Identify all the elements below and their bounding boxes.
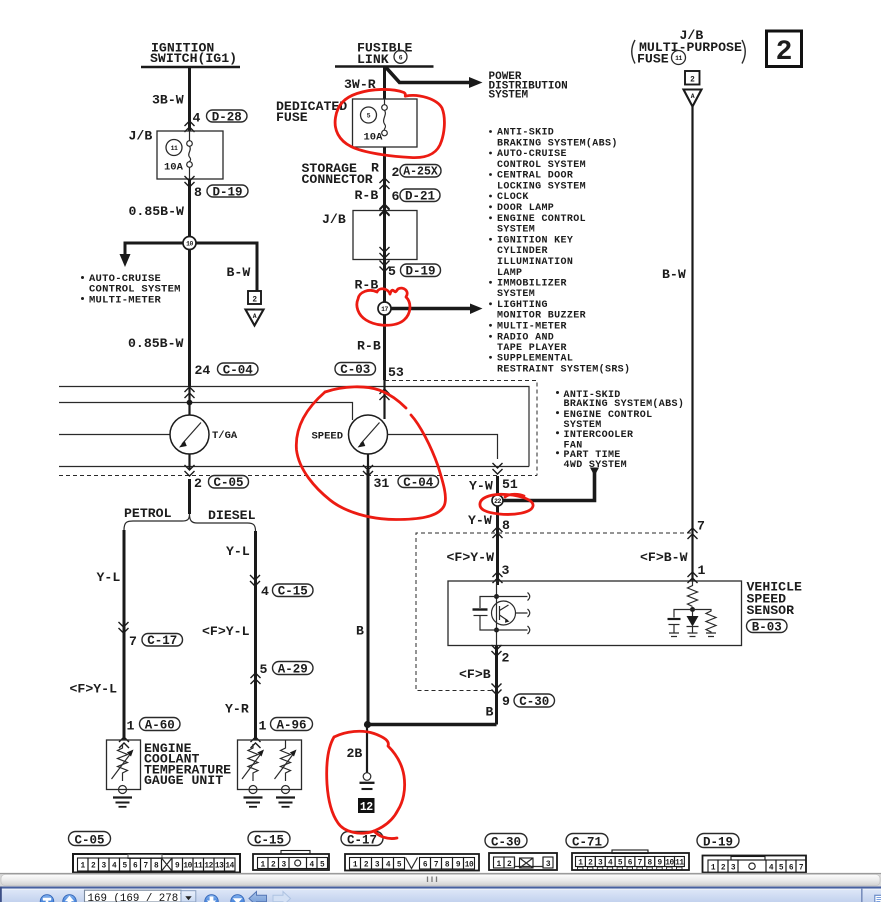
horizontal scrollbar track (0, 873, 881, 887)
svg-text:11: 11 (675, 860, 684, 868)
svg-text:10A: 10A (364, 132, 384, 144)
fuse number circle 5 (361, 107, 377, 123)
arrowhead to auto-cruise list (120, 254, 131, 267)
toolbar button last page (231, 895, 245, 902)
svg-text:C-71: C-71 (572, 836, 602, 850)
svg-text:8: 8 (194, 185, 202, 200)
transistor circle in sensor (492, 601, 516, 625)
node 22 (492, 495, 503, 506)
svg-text:LOCKING SYSTEM: LOCKING SYSTEM (497, 182, 586, 193)
svg-text:10: 10 (186, 241, 193, 248)
svg-text:Y-W: Y-W (469, 479, 493, 494)
svg-text:0.85B-W: 0.85B-W (128, 336, 183, 351)
zener diode (sensor right) (692, 612, 694, 616)
red annotation circle around ground 12 (327, 731, 405, 833)
arrow to power distribution system (386, 68, 470, 83)
svg-text:SUPPLEMENTAL: SUPPLEMENTAL (497, 354, 573, 365)
svg-text:3: 3 (598, 860, 603, 868)
svg-text:C-15: C-15 (278, 585, 308, 599)
branch to 4WD systems arrow (503, 471, 595, 501)
svg-text:3: 3 (546, 861, 551, 869)
big parentheses (632, 40, 635, 64)
triangle ref A (left) (246, 310, 264, 326)
chevrons into meter (185, 387, 195, 398)
svg-text:4: 4 (310, 862, 315, 870)
wire R (383, 147, 386, 205)
connector C-30 label (485, 834, 527, 848)
svg-text:8: 8 (502, 518, 510, 533)
svg-text:A-96: A-96 (276, 719, 306, 733)
wire R-B low (383, 315, 386, 380)
svg-text:<F>Y-W: <F>Y-W (447, 550, 495, 565)
svg-text:2: 2 (364, 862, 369, 870)
sender ground (diesel 1) (249, 786, 257, 794)
svg-text:FUSE: FUSE (637, 52, 669, 67)
svg-text:PETROL: PETROL (124, 506, 172, 521)
status panel icon (875, 895, 881, 902)
page number box 2 (top right) (767, 31, 802, 67)
svg-text:4: 4 (261, 584, 269, 599)
svg-text:5: 5 (779, 865, 784, 873)
svg-text:B: B (486, 705, 494, 720)
svg-text:7: 7 (638, 860, 643, 868)
svg-text:2: 2 (776, 37, 793, 68)
resistor in sensor (right) (688, 581, 698, 607)
junction dot B (364, 721, 371, 728)
svg-text:SENSOR: SENSOR (747, 603, 795, 618)
svg-text:5: 5 (123, 863, 128, 871)
svg-text:J/B: J/B (322, 212, 346, 227)
svg-text:C-17: C-17 (147, 634, 177, 648)
scrollbar grip (428, 877, 437, 883)
svg-text:5: 5 (367, 113, 371, 120)
red annotation circle around node 22 (505, 494, 524, 497)
fusible link bus (335, 65, 434, 68)
svg-text:2: 2 (392, 165, 400, 180)
svg-text:TAPE PLAYER: TAPE PLAYER (497, 343, 567, 354)
svg-text:4: 4 (386, 862, 391, 870)
svg-text:BRAKING SYSTEM(ABS): BRAKING SYSTEM(ABS) (564, 398, 685, 410)
connector C-30 pin layout (489, 853, 557, 870)
svg-text:Y-L: Y-L (97, 570, 121, 585)
svg-text:1: 1 (127, 719, 135, 734)
svg-text:D-19: D-19 (212, 186, 242, 200)
svg-text:IMMOBILIZER: IMMOBILIZER (497, 279, 567, 290)
svg-text:DOOR LAMP: DOOR LAMP (497, 203, 554, 214)
svg-text:10A: 10A (164, 162, 184, 174)
svg-text:6: 6 (423, 862, 428, 870)
svg-text:J/B: J/B (129, 129, 153, 144)
svg-text:D-19: D-19 (405, 265, 435, 279)
page number field (85, 890, 182, 902)
svg-text:7: 7 (697, 519, 705, 534)
wire 0.85B-W upper (188, 179, 191, 386)
svg-text:5: 5 (320, 862, 325, 870)
svg-text:11: 11 (171, 145, 178, 152)
svg-text:12: 12 (360, 801, 373, 814)
node 17 (378, 302, 391, 315)
wire 3W-R (383, 67, 386, 100)
toolbar button first page (40, 895, 54, 902)
wire B from speedometer (367, 470, 370, 725)
svg-text:IGNITION KEY: IGNITION KEY (497, 236, 573, 247)
svg-text:1: 1 (259, 719, 267, 734)
wire (F)B (495, 646, 498, 725)
variable resistor (petrol sender) (118, 744, 128, 781)
connector C-15 pin layout (253, 851, 329, 871)
svg-text:B-W: B-W (662, 267, 686, 282)
svg-text:MULTI-METER: MULTI-METER (497, 322, 567, 333)
combination meter inner bus line (59, 403, 353, 421)
svg-text:7: 7 (144, 863, 149, 871)
svg-text:C-05: C-05 (213, 476, 243, 490)
svg-text:INTERCOOLER: INTERCOOLER (564, 430, 634, 441)
SPEED output wire down (367, 454, 369, 470)
wire through J/B 2 (383, 205, 386, 302)
svg-text:1: 1 (578, 860, 583, 868)
svg-text:24: 24 (195, 363, 211, 378)
svg-text:C-30: C-30 (519, 695, 549, 709)
svg-text:Y-W: Y-W (468, 513, 492, 528)
svg-text:FUSE: FUSE (276, 110, 308, 125)
gauge SPEED (349, 415, 388, 454)
svg-text:R-B: R-B (357, 339, 381, 354)
svg-text:6: 6 (628, 860, 633, 868)
connector C-15 label (248, 832, 290, 846)
wire to fork (188, 479, 191, 514)
svg-text:5: 5 (388, 264, 396, 279)
svg-text:A-25X: A-25X (403, 166, 438, 179)
svg-text:8: 8 (445, 862, 450, 870)
svg-text:ILLUMINATION: ILLUMINATION (497, 257, 573, 268)
svg-text:17: 17 (381, 306, 388, 313)
svg-text:MULTI-METER: MULTI-METER (89, 295, 162, 307)
svg-text:3: 3 (102, 863, 107, 871)
svg-text:11: 11 (194, 863, 203, 871)
svg-text:SPEED: SPEED (312, 431, 344, 443)
svg-text:5: 5 (260, 662, 268, 677)
svg-text:9: 9 (657, 860, 662, 868)
svg-text:<F>Y-L: <F>Y-L (70, 682, 118, 697)
svg-text:3: 3 (731, 865, 736, 873)
connector label D-28 (207, 110, 248, 122)
svg-text:3B-W: 3B-W (152, 93, 184, 108)
toolbar right separator (861, 889, 863, 902)
connector C-71 pin layout (572, 850, 689, 870)
svg-text:6: 6 (392, 189, 400, 204)
svg-text:12: 12 (204, 863, 213, 871)
svg-text:SYSTEM: SYSTEM (497, 289, 535, 300)
svg-text:RADIO AND: RADIO AND (497, 333, 554, 344)
sender ground (diesel 2) (282, 786, 290, 794)
svg-text:LIGHTING: LIGHTING (497, 300, 548, 311)
scrollbar thumb (1, 875, 880, 886)
toolbar top separator (0, 887, 881, 889)
svg-text:SWITCH(IG1): SWITCH(IG1) (150, 51, 237, 66)
T/GA output wire (188, 454, 190, 470)
svg-text:9: 9 (456, 862, 461, 870)
sensor internal node wire (496, 583, 498, 646)
variable resistor (diesel sender 1) (248, 744, 258, 781)
svg-text:A-29: A-29 (278, 663, 308, 677)
svg-text:A: A (253, 313, 257, 320)
fusible link number circle 6 (394, 50, 407, 63)
svg-text:14: 14 (225, 863, 234, 871)
svg-text:BRAKING SYSTEM(ABS): BRAKING SYSTEM(ABS) (497, 137, 618, 149)
dedicated fuse box (353, 99, 418, 147)
wire (F)Y-W pin 3 (496, 540, 499, 585)
junction dot sensor right (690, 607, 695, 612)
connector label C-03 / pin 53 (335, 363, 376, 376)
arrow from node 17 to lighting monitor buzzer (391, 307, 471, 311)
svg-text:2: 2 (252, 297, 257, 305)
connector label C-04 (218, 363, 259, 375)
page field dropdown button (181, 891, 196, 902)
svg-text:3: 3 (375, 862, 380, 870)
svg-text:5: 5 (397, 862, 402, 870)
svg-text:4: 4 (193, 111, 201, 126)
svg-text:10: 10 (183, 863, 192, 871)
svg-text:C-05: C-05 (74, 834, 104, 848)
toolbar background (0, 889, 881, 902)
svg-text:5: 5 (618, 860, 623, 868)
svg-text:D-19: D-19 (703, 836, 733, 850)
resistor 2 (sensor right) (693, 610, 717, 637)
svg-text:3: 3 (502, 563, 510, 578)
svg-text:1: 1 (497, 861, 502, 869)
toolbar next view arrow (disabled) (273, 892, 291, 902)
svg-text:AUTO-CRUISE: AUTO-CRUISE (497, 149, 567, 160)
sender ground (petrol) (119, 786, 127, 794)
svg-text:SYSTEM: SYSTEM (489, 90, 529, 102)
svg-text:7: 7 (799, 865, 804, 873)
svg-text:LAMP: LAMP (497, 268, 522, 279)
svg-text:B-03: B-03 (752, 621, 782, 635)
svg-text:MONITOR BUZZER: MONITOR BUZZER (497, 311, 586, 322)
wire 2B to ground (366, 725, 368, 774)
connector D-19 pin layout (703, 856, 807, 873)
svg-text:D-21: D-21 (405, 190, 435, 204)
svg-text:6: 6 (399, 55, 403, 62)
gauge T/GA (170, 415, 209, 454)
svg-text:8: 8 (648, 860, 653, 868)
svg-text:2: 2 (194, 476, 202, 491)
combination meter T/GA feed line (59, 434, 170, 436)
svg-text:2: 2 (91, 863, 96, 871)
wire 3B-W (188, 67, 191, 131)
connector label B-03 (747, 620, 788, 633)
svg-text:7: 7 (129, 634, 137, 649)
red annotation circle around dedicated fuse (335, 89, 444, 157)
svg-text:10: 10 (465, 862, 474, 870)
svg-text:2: 2 (690, 77, 695, 85)
svg-text:CLOCK: CLOCK (497, 192, 529, 203)
sensor harness dashed boundary (416, 533, 691, 691)
svg-text:<F>Y-L: <F>Y-L (202, 624, 250, 639)
window left edge (0, 887, 2, 902)
toolbar button previous page (63, 895, 77, 902)
svg-text:22: 22 (494, 498, 501, 505)
svg-text:Y-L: Y-L (226, 544, 250, 559)
ground ref box 12 (358, 798, 375, 813)
svg-text:C-04: C-04 (223, 364, 254, 378)
svg-text:ANTI-SKID: ANTI-SKID (497, 128, 554, 139)
connector C-05 pin layout (73, 854, 240, 873)
svg-text:4: 4 (608, 860, 613, 868)
svg-text:0.85B-W: 0.85B-W (129, 204, 184, 219)
svg-text:2: 2 (502, 651, 510, 666)
svg-text:Y-R: Y-R (225, 702, 249, 717)
svg-text:8: 8 (154, 863, 159, 871)
junction dot on T/GA wire (187, 400, 193, 406)
svg-text:LINK: LINK (357, 52, 389, 67)
svg-text:D-28: D-28 (212, 111, 242, 125)
svg-text:1: 1 (353, 862, 358, 870)
svg-text:<F>B-W: <F>B-W (640, 550, 688, 565)
svg-text:169 (169 / 278): 169 (169 / 278) (88, 893, 185, 902)
svg-text:2B: 2B (347, 746, 363, 761)
connector C-05 label (69, 832, 111, 846)
svg-text:C-17: C-17 (347, 834, 377, 848)
svg-text:C-03: C-03 (340, 363, 370, 377)
red annotation circle around speedometer (325, 387, 406, 408)
auto-cruise / multi-meter list (81, 276, 84, 279)
chevrons below J/B (185, 176, 195, 187)
svg-text:10: 10 (665, 860, 674, 868)
junction dot top (494, 594, 499, 599)
svg-text:7: 7 (434, 862, 439, 870)
svg-text:9: 9 (502, 694, 510, 709)
sensor pickup leads (497, 597, 528, 631)
svg-text:53: 53 (388, 365, 404, 380)
connector C-71 label (566, 834, 608, 848)
svg-text:31: 31 (374, 476, 390, 491)
SPEED output right Y-W (388, 435, 498, 460)
vehicle speed sensor box (448, 581, 742, 646)
svg-text:GAUGE UNIT: GAUGE UNIT (144, 773, 223, 788)
variable resistor (diesel sender 2) (281, 744, 291, 781)
junction dot bottom (494, 628, 499, 633)
wire Y-W pin 8 (496, 506, 499, 540)
connector D-19 label (697, 834, 739, 848)
svg-text:SYSTEM: SYSTEM (497, 225, 535, 236)
svg-text:CONNECTOR: CONNECTOR (302, 172, 373, 187)
svg-text:4: 4 (112, 863, 117, 871)
svg-text:R-B: R-B (355, 188, 379, 203)
ignition switch bus (141, 66, 240, 69)
toolbar button next page (205, 895, 219, 902)
svg-text:6: 6 (789, 865, 794, 873)
connector label C-04 lower (398, 476, 439, 488)
fuse circle 11 (multi-purpose) (672, 51, 686, 65)
capacitor in sensor (480, 597, 497, 609)
svg-text:RESTRAINT SYSTEM(SRS): RESTRAINT SYSTEM(SRS) (497, 364, 630, 376)
fork brace (124, 514, 256, 531)
bullet list right top (489, 128, 630, 376)
combination meter dashed boundary (59, 381, 537, 476)
connector C-17 pin layout (345, 854, 479, 871)
fuse element 10A in J/B (189, 131, 191, 141)
red annotation circle around node 17 (357, 288, 410, 325)
svg-text:1: 1 (711, 865, 716, 873)
svg-text:B: B (356, 624, 364, 639)
branch left to auto-cruise (125, 243, 190, 255)
svg-text:<F>B: <F>B (459, 667, 491, 682)
svg-text:CYLINDER: CYLINDER (497, 246, 548, 257)
svg-text:1: 1 (81, 863, 86, 871)
connector label D-19 (207, 185, 248, 197)
svg-text:1: 1 (698, 563, 706, 578)
triangle ref A (right) (684, 90, 702, 107)
svg-text:B-W: B-W (227, 265, 251, 280)
svg-text:2: 2 (507, 861, 512, 869)
wire R-B into speedometer (383, 378, 385, 419)
svg-text:DIESEL: DIESEL (208, 508, 256, 523)
svg-text:A: A (691, 93, 695, 100)
svg-text:C-15: C-15 (254, 834, 284, 848)
svg-text:9: 9 (175, 863, 180, 871)
svg-text:ENGINE CONTROL: ENGINE CONTROL (497, 214, 586, 225)
node 10 (183, 237, 196, 250)
wire B-W right column (691, 107, 693, 582)
svg-text:1: 1 (261, 862, 266, 870)
dedicated fuse element 10A (384, 99, 386, 105)
petrol wire Y-L (123, 530, 126, 740)
svg-text:2: 2 (721, 865, 726, 873)
svg-text:A-60: A-60 (145, 719, 175, 733)
svg-text:51: 51 (502, 477, 518, 492)
svg-text:2: 2 (588, 860, 593, 868)
svg-text:C-04: C-04 (403, 476, 434, 490)
svg-text:4: 4 (769, 865, 774, 873)
branch right B-W (190, 243, 258, 291)
small page ref box 2 (685, 71, 700, 85)
svg-text:CONTROL SYSTEM: CONTROL SYSTEM (497, 160, 586, 171)
svg-text:11: 11 (675, 55, 682, 62)
svg-text:6: 6 (133, 863, 138, 871)
svg-text:T/GA: T/GA (212, 430, 238, 442)
capacitor branch (sensor right) (674, 610, 693, 618)
connector C-17 label (341, 832, 383, 846)
svg-text:13: 13 (215, 863, 224, 871)
fuse number circle 11 (166, 140, 182, 156)
engine coolant temperature gauge unit box (petrol) (107, 740, 141, 790)
ground symbol 12 (363, 773, 371, 781)
gauge unit box (diesel) (238, 740, 302, 790)
bullet list meter outputs (556, 390, 684, 471)
page ref box 2 small (left) (248, 291, 261, 304)
wire into T/GA gauge (188, 386, 190, 416)
svg-text:3: 3 (282, 862, 287, 870)
combination meter solid box (59, 387, 529, 467)
connector chevrons into J/B (185, 121, 195, 132)
svg-text:CENTRAL DOOR: CENTRAL DOOR (497, 171, 573, 182)
diesel wire Y-L (254, 531, 257, 740)
toolbar previous view arrow (249, 892, 267, 902)
svg-text:C-30: C-30 (491, 836, 521, 850)
svg-text:2: 2 (271, 862, 276, 870)
sensor output pin 2 (492, 645, 502, 656)
